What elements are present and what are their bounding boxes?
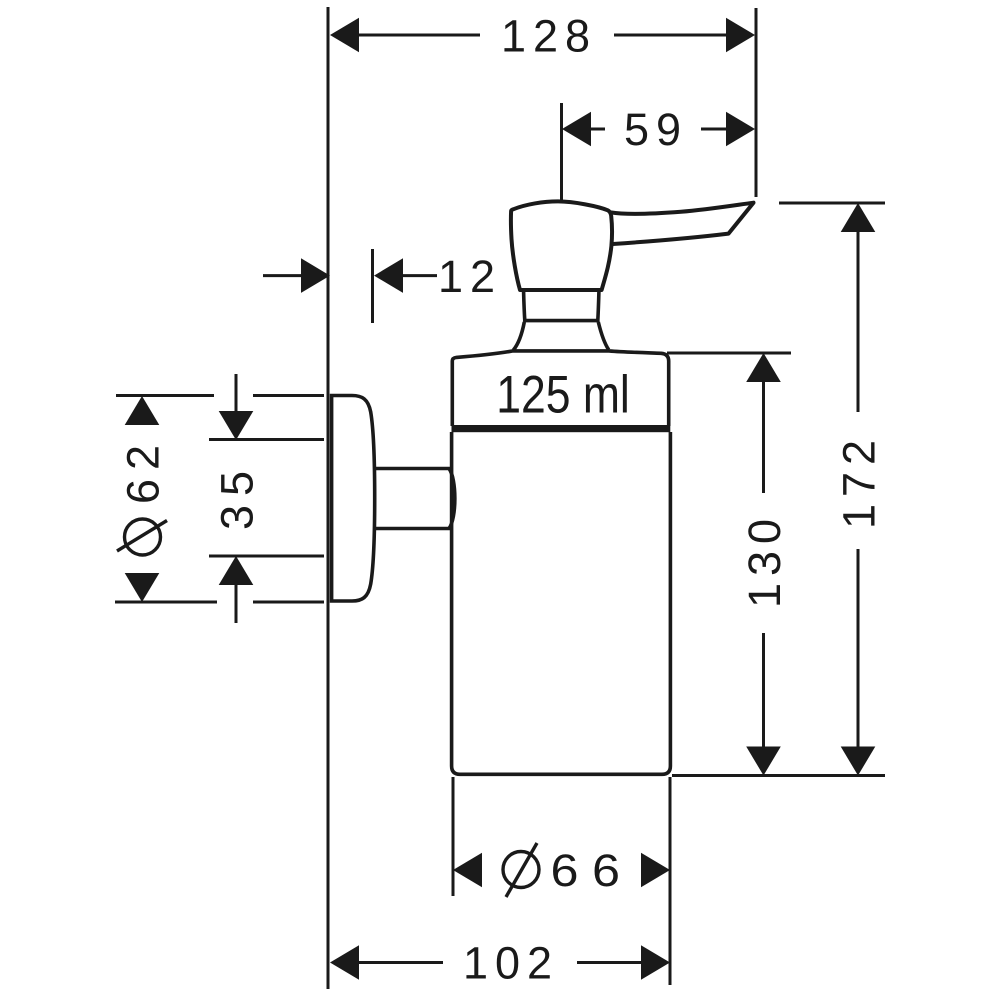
extension line D62 top [116,394,324,397]
dimension D66 arrow right [641,853,670,888]
svg-text:62: 62 [117,436,168,504]
extension line 130 top [667,352,791,355]
dimension 59 line [590,128,726,131]
dimension 130 line [762,381,765,747]
wall line [327,7,330,989]
dimension 172 arrow down [841,747,876,776]
svg-text:66: 66 [551,846,634,896]
seam thick line [452,425,671,432]
extension line 35 bottom [209,555,324,558]
extension line 172 top [779,202,885,205]
dimension 102 line [359,961,641,964]
dimension 59 ext line [560,103,563,200]
extension line D62 bottom [115,601,324,604]
dimension 59 arrow left [562,112,591,147]
symbol D62 [117,519,167,555]
dimension 35 arrow up (tip at 556) [219,556,254,585]
extension line right (for 128 / 59) [755,8,758,197]
extension line D66 left [452,777,455,896]
svg-text:59: 59 [624,104,688,155]
dimension 130 arrow down [746,747,781,776]
dimension 59 arrow right [726,112,755,147]
svg-text:125 ml: 125 ml [496,366,630,424]
svg-text:102: 102 [463,938,559,989]
dimension 128 arrow left [330,18,359,53]
extension line right bottom (D66 / 102) [669,777,672,985]
extension line 12 (plate face) [371,249,374,323]
svg-text:130: 130 [739,512,790,608]
symbol D66 [503,843,539,897]
dimension 12 arrow left (outside, pointing right) [263,274,305,277]
svg-text:35: 35 [211,462,262,530]
bottle body [452,432,671,774]
dimension 12 arrow right (outside, pointing left) [402,274,437,277]
extension line bottom shared (130 / 172) [672,774,885,777]
bottle band (125 ml section) [452,351,668,426]
dimension D62 arrow up [125,396,160,425]
pump handle [611,203,754,244]
extension line 35 top [209,438,324,441]
dimension 128 arrow right [726,18,755,53]
dimension 102 arrow left [330,945,359,980]
svg-text:172: 172 [833,433,884,529]
wall plate [332,396,375,602]
pump head [511,201,612,290]
dimension 35 arrow down (tip at 440) [219,411,254,440]
dimension 102 arrow right [641,945,670,980]
svg-text:128: 128 [501,11,597,62]
pump neck [524,292,599,321]
dimension 172 line [857,231,860,747]
dimension D62 arrow down [125,573,160,602]
svg-text:12: 12 [438,251,502,302]
mounting arm [375,469,455,529]
dimension 128 line [358,34,727,37]
dimension 130 arrow up [746,353,781,382]
dimension 172 arrow up [841,203,876,232]
dimension 35 stubs [235,374,238,623]
dimension D66 arrow left [453,853,482,888]
pump collar flare [513,322,608,350]
